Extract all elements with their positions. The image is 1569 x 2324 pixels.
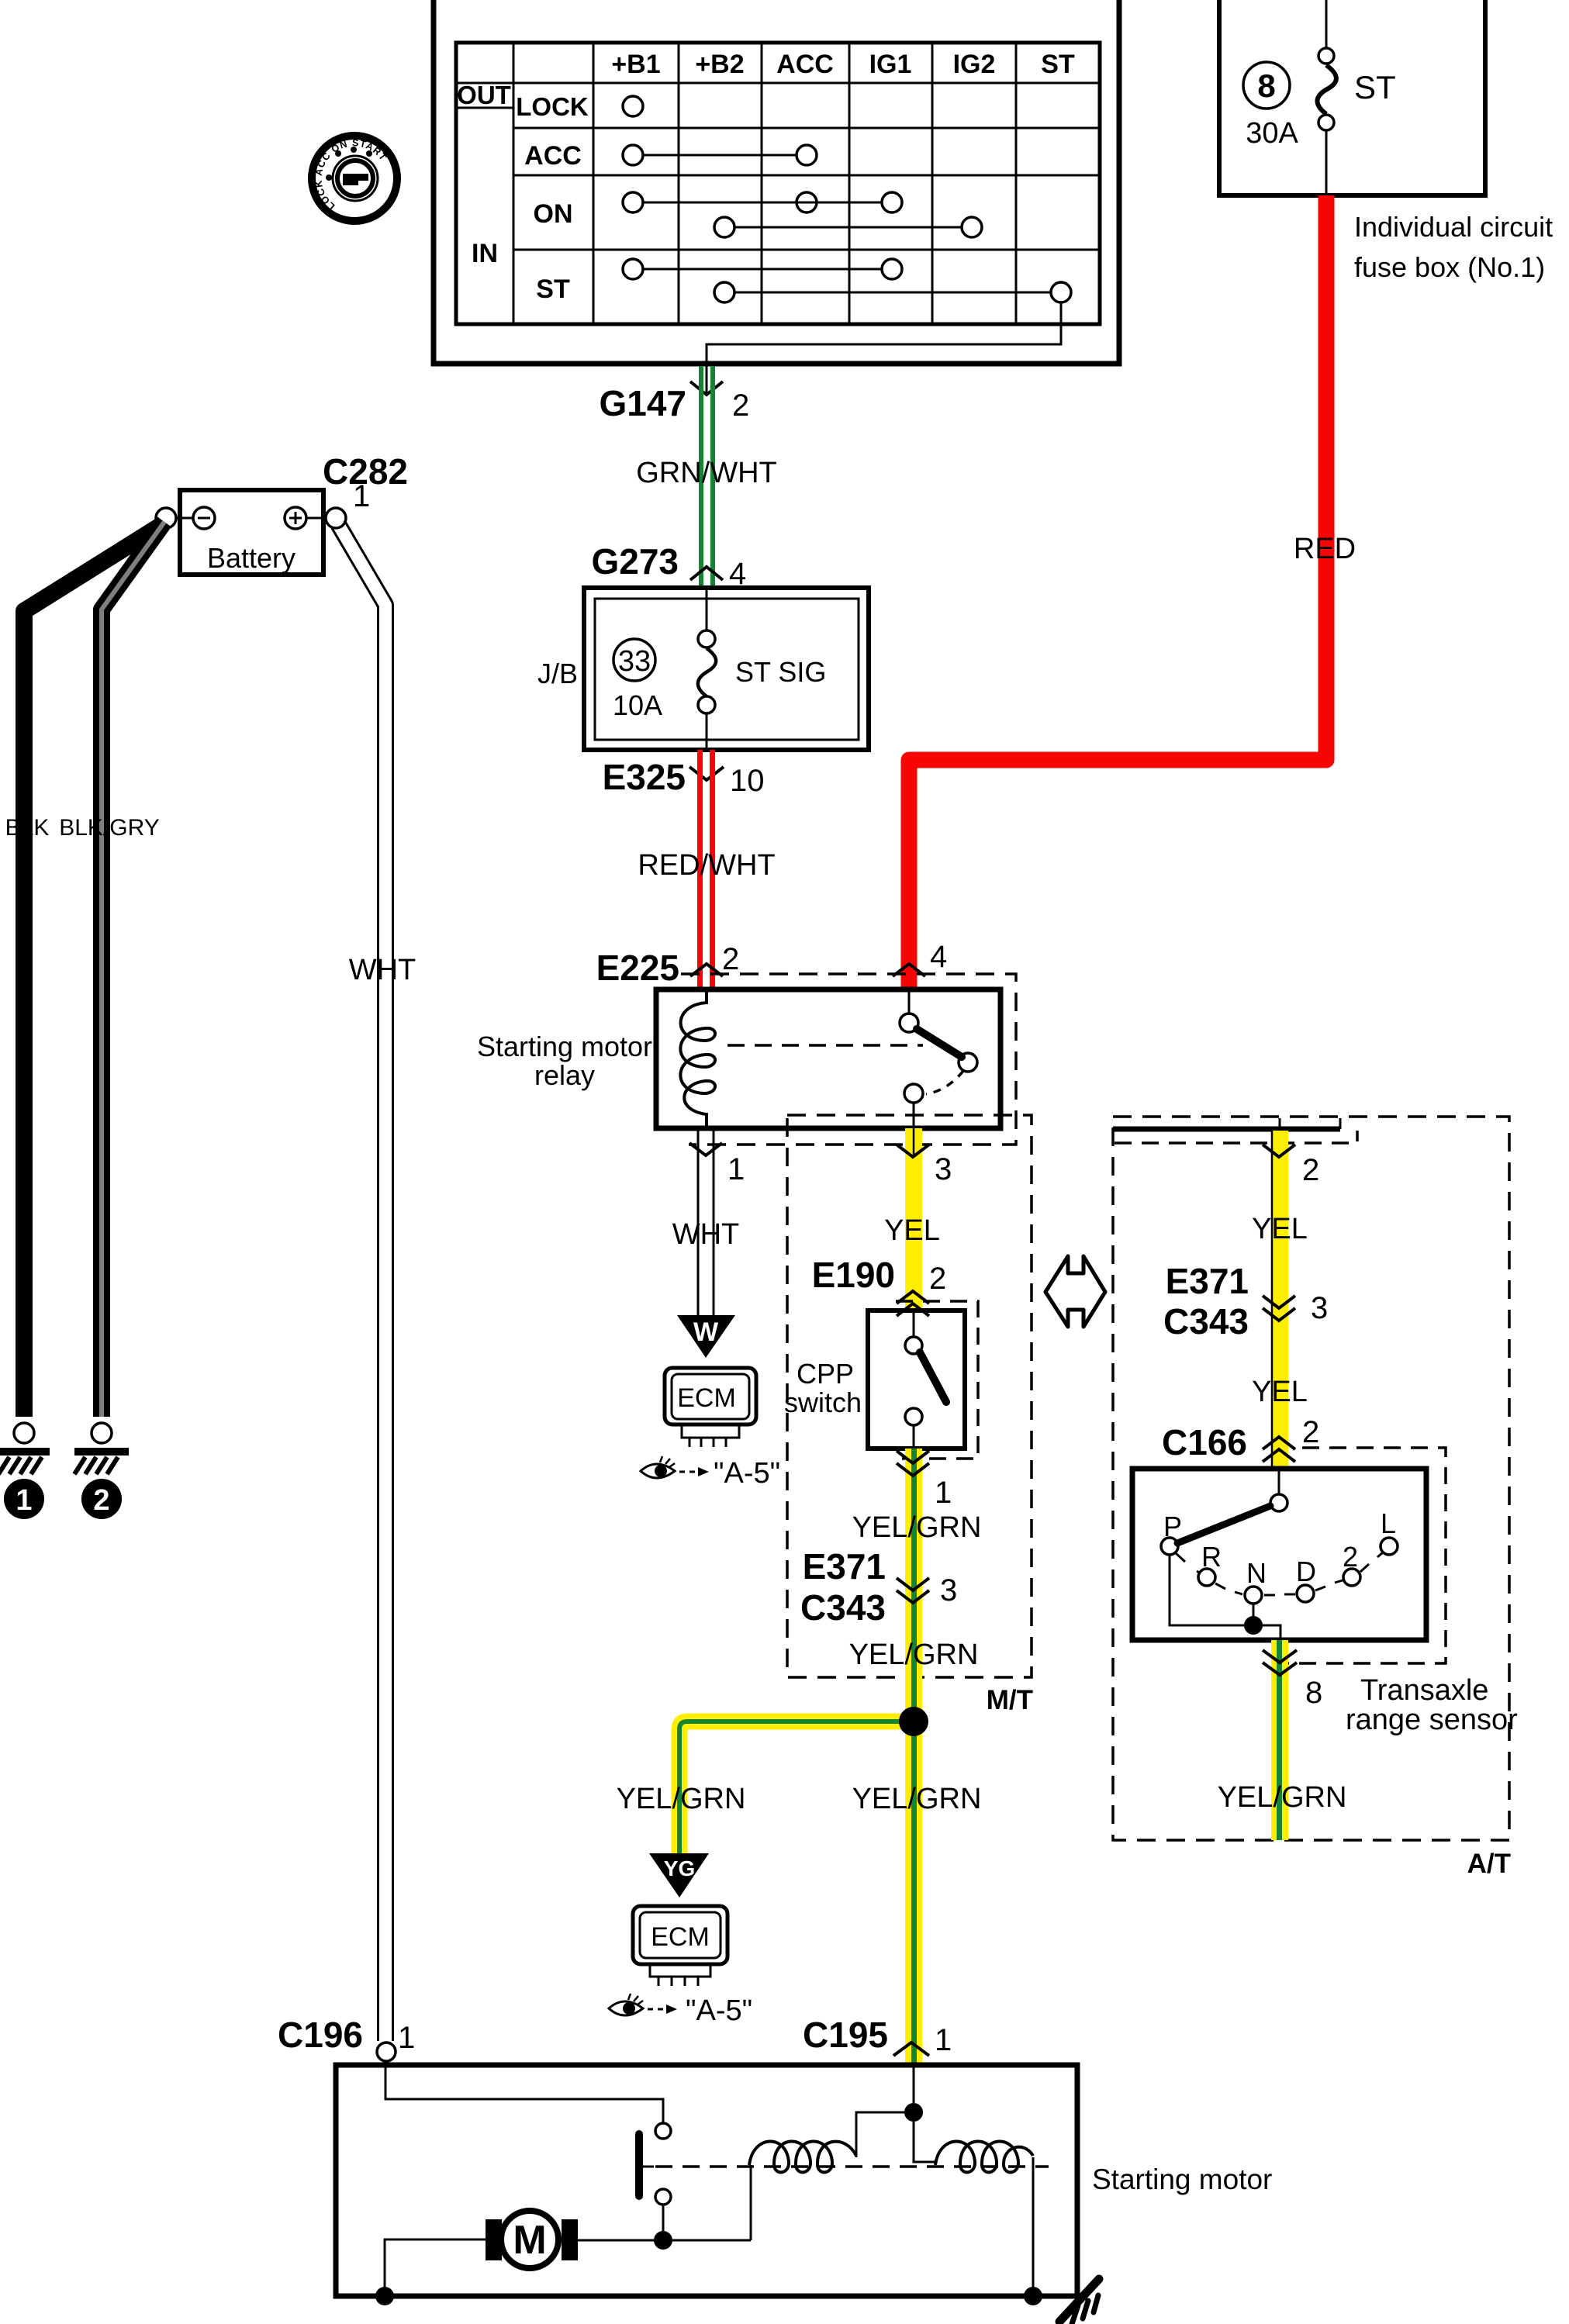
- svg-text:3: 3: [935, 1152, 952, 1186]
- wire winding to ground bus: [1032, 2157, 1035, 2291]
- svg-text:M: M: [513, 2218, 546, 2263]
- svg-text:YEL/GRN: YEL/GRN: [852, 1511, 982, 1544]
- svg-text:WHT: WHT: [349, 954, 416, 986]
- svg-text:range sensor: range sensor: [1346, 1704, 1518, 1736]
- plunger link: [641, 2166, 654, 2168]
- node battery right: [326, 508, 346, 528]
- ground 2: [74, 1423, 129, 1474]
- ground 1: [0, 1423, 50, 1474]
- node battery left: [156, 508, 176, 528]
- svg-text:ECM: ECM: [651, 1922, 710, 1952]
- connector C195: [803, 2015, 952, 2057]
- M/T dashed box: [787, 1115, 1032, 1677]
- table contact circles LOCK row: [623, 96, 643, 116]
- relay switch: [900, 989, 977, 1128]
- chassis ground: [1059, 2279, 1099, 2324]
- svg-text:2: 2: [93, 1484, 109, 1517]
- node bottom right: [1024, 2287, 1042, 2305]
- svg-text:2: 2: [1343, 1541, 1358, 1573]
- svg-text:2: 2: [929, 1262, 946, 1296]
- svg-text:Battery: Battery: [207, 542, 295, 574]
- wire YEL/GRN below CPP: [905, 1449, 922, 1721]
- connector G147: [599, 382, 749, 423]
- label Transaxle range sensor: [1346, 1674, 1518, 1736]
- node hold-in: [904, 2103, 923, 2122]
- fuse ST SIG 10A: [698, 588, 716, 750]
- label Individual circuit fuse box (No.1): [1354, 211, 1553, 283]
- wire node down: [914, 2122, 937, 2162]
- svg-text:YEL/GRN: YEL/GRN: [852, 1783, 982, 1815]
- contact arc ticks: [1176, 1552, 1383, 1595]
- connector C196: [278, 2015, 415, 2061]
- CPP switch dashed connector outline: [894, 1301, 978, 1459]
- svg-text:C196: C196: [278, 2015, 363, 2055]
- svg-text:ST: ST: [1354, 69, 1396, 105]
- transaxle range sensor box: [1132, 1469, 1426, 1640]
- svg-text:A/T: A/T: [1467, 1849, 1511, 1879]
- wire YEL relay pin 3: [905, 1128, 922, 1310]
- svg-text:IG1: IG1: [869, 50, 912, 79]
- svg-text:YEL/GRN: YEL/GRN: [849, 1639, 979, 1671]
- svg-text:"A-5": "A-5": [714, 1457, 780, 1490]
- arrow YG to ECM: [649, 1853, 709, 1898]
- connector E190: [812, 1255, 947, 1316]
- relay coil: [680, 989, 715, 1128]
- svg-text:OUT: OUT: [457, 81, 511, 109]
- svg-text:ST: ST: [536, 275, 570, 304]
- svg-text:YEL: YEL: [1252, 1376, 1308, 1408]
- ground 1 number: [4, 1479, 44, 1519]
- ECM box 2: [633, 1906, 727, 1986]
- svg-text:Transaxle: Transaxle: [1360, 1674, 1488, 1707]
- connector C166: [1162, 1415, 1319, 1462]
- connector G273: [591, 541, 746, 591]
- svg-text:Starting motor: Starting motor: [477, 1031, 652, 1062]
- svg-text:ACC: ACC: [776, 50, 834, 79]
- wire YEL/GRN A/T: [1271, 1640, 1288, 1840]
- svg-text:C166: C166: [1162, 1422, 1247, 1462]
- connector E371 C343 M/T: [800, 1546, 957, 1628]
- wire inside from C196 to solenoid contact: [385, 2061, 663, 2123]
- svg-text:BLK/GRY: BLK/GRY: [59, 815, 160, 841]
- wire YEL/GRN branch to ECM: [679, 1721, 914, 1853]
- A/T pin 2 chevron: [1263, 1145, 1319, 1187]
- relay pin 3 chevron: [897, 1145, 952, 1186]
- svg-text:switch: switch: [784, 1386, 862, 1418]
- sensor armature: [1177, 1506, 1270, 1543]
- fuse box No.1: [1219, 0, 1485, 195]
- fuse number 8: [1243, 62, 1290, 109]
- wire WHT relay pin 1: [698, 1128, 714, 1316]
- svg-text:+B1: +B1: [611, 50, 660, 79]
- svg-text:3: 3: [940, 1573, 957, 1607]
- svg-text:Individual circuit: Individual circuit: [1354, 211, 1553, 243]
- svg-text:WHT: WHT: [672, 1218, 740, 1251]
- svg-text:8: 8: [1305, 1676, 1322, 1710]
- svg-text:N: N: [1246, 1557, 1267, 1589]
- ignition switch contact table: [456, 43, 1100, 324]
- wire ST output inside switch box: [707, 302, 1061, 364]
- ECM box 1: [665, 1368, 756, 1447]
- svg-text:4: 4: [930, 940, 947, 974]
- svg-text:BLK: BLK: [5, 815, 50, 841]
- CPP switch contacts: [905, 1310, 946, 1449]
- contact D: [1296, 1556, 1316, 1602]
- svg-text:1: 1: [353, 479, 370, 513]
- sensor pin 8 chevrons: [1263, 1650, 1322, 1710]
- wire GRN/WHT: [699, 366, 715, 588]
- svg-text:ST: ST: [1041, 50, 1075, 79]
- svg-text:D: D: [1296, 1556, 1316, 1587]
- coil pull-in winding: [749, 2141, 856, 2172]
- A/T wire stub: [1279, 1118, 1281, 1129]
- svg-text:2: 2: [722, 942, 739, 976]
- sensor node: [1244, 1616, 1263, 1635]
- svg-text:GRN/WHT: GRN/WHT: [636, 457, 777, 489]
- svg-text:R: R: [1201, 1541, 1222, 1573]
- pull-in winding riser: [750, 2165, 752, 2240]
- svg-text:G273: G273: [591, 541, 679, 582]
- svg-text:8: 8: [1257, 67, 1275, 104]
- contact P: [1161, 1511, 1182, 1555]
- battery terminal links: [176, 517, 326, 520]
- sensor node wiring: [1170, 1555, 1280, 1640]
- svg-text:10: 10: [730, 764, 765, 798]
- svg-text:YEL/GRN: YEL/GRN: [617, 1783, 746, 1815]
- wire YEL A/T: [1271, 1131, 1288, 1469]
- svg-text:ECM: ECM: [677, 1383, 736, 1413]
- svg-text:1: 1: [398, 2021, 415, 2055]
- starting motor relay box: [656, 989, 1000, 1128]
- wire coil to node: [856, 2112, 904, 2157]
- connector E371 C343 A/T: [1163, 1261, 1328, 1342]
- svg-text:E371: E371: [803, 1546, 886, 1587]
- svg-text:fuse box (No.1): fuse box (No.1): [1354, 251, 1545, 283]
- A/T relay edge line: [1113, 1127, 1340, 1132]
- contact 2: [1343, 1541, 1360, 1586]
- svg-text:"A-5": "A-5": [686, 1994, 752, 2027]
- wire stub to G147: [706, 364, 708, 394]
- svg-text:+B2: +B2: [695, 50, 744, 79]
- svg-text:YEL: YEL: [884, 1214, 940, 1247]
- connector E325: [603, 757, 765, 798]
- contact N: [1245, 1557, 1267, 1604]
- svg-text:J/B: J/B: [537, 658, 578, 689]
- fuse number 33: [613, 639, 655, 681]
- svg-text:3: 3: [1311, 1291, 1328, 1325]
- svg-text:E190: E190: [812, 1255, 895, 1295]
- svg-text:ACC: ACC: [524, 141, 582, 171]
- svg-text:1: 1: [727, 1152, 745, 1186]
- battery box: [180, 490, 323, 575]
- CPP switch box: [868, 1310, 965, 1449]
- A/T connector dashed edge: [1115, 1131, 1357, 1143]
- connector E225 dashed outline: [681, 974, 1016, 1145]
- battery minus terminal: [193, 507, 215, 529]
- svg-text:LOCK: LOCK: [516, 92, 589, 121]
- table contacts ST row: [623, 259, 1071, 302]
- svg-text:P: P: [1163, 1511, 1182, 1542]
- contact R: [1198, 1541, 1222, 1586]
- M/T A/T equivalence arrow: [1045, 1256, 1105, 1327]
- wire C195 into box: [913, 2065, 915, 2103]
- svg-text:33: 33: [618, 645, 651, 678]
- svg-text:E371: E371: [1166, 1261, 1249, 1301]
- label Starting motor relay: [477, 1031, 652, 1091]
- svg-text:ST SIG: ST SIG: [735, 656, 826, 688]
- starting motor box: [336, 2065, 1077, 2296]
- node solenoid output: [654, 2231, 672, 2250]
- svg-text:YEL: YEL: [1252, 1213, 1308, 1245]
- svg-text:W: W: [693, 1317, 719, 1347]
- eye icon 2: [609, 1994, 677, 2015]
- sensor N output: [1253, 1604, 1255, 1617]
- svg-text:2: 2: [732, 388, 749, 423]
- svg-text:C343: C343: [800, 1587, 886, 1628]
- svg-text:Starting motor: Starting motor: [1092, 2163, 1272, 2195]
- A/T dashed box: [1113, 1117, 1509, 1840]
- wire BLK/GRY: [102, 522, 164, 1417]
- solenoid plunger bar: [635, 2134, 643, 2196]
- svg-text:2: 2: [1302, 1153, 1319, 1187]
- ignition key symbol: [312, 136, 397, 221]
- wire RED from fuse box to relay pin 4: [909, 195, 1326, 989]
- relay pin 1 chevron: [689, 1143, 745, 1186]
- eye icon 1: [641, 1456, 709, 1478]
- relay actuation dashed link: [727, 1044, 923, 1047]
- wire RED/WHT: [697, 750, 715, 989]
- connector C282: [323, 451, 408, 513]
- svg-text:IG2: IG2: [953, 50, 996, 79]
- motor supply wire: [578, 2239, 751, 2242]
- svg-text:ON: ON: [534, 199, 573, 229]
- label CPP switch: [784, 1358, 862, 1418]
- CPP pin 1 chevrons: [897, 1451, 952, 1510]
- svg-text:CPP: CPP: [797, 1358, 854, 1390]
- ignition switch box: [434, 0, 1119, 364]
- svg-text:1: 1: [935, 1476, 952, 1510]
- table contacts ACC row: [623, 145, 817, 165]
- wire WHT from battery: [338, 524, 385, 2041]
- svg-text:IN: IN: [472, 239, 498, 268]
- wire motor to ground side: [385, 2239, 486, 2291]
- svg-text:1: 1: [16, 1484, 32, 1517]
- svg-text:30A: 30A: [1246, 117, 1298, 150]
- arrow W to ECM: [677, 1315, 735, 1358]
- svg-text:1: 1: [935, 2023, 952, 2057]
- svg-text:E325: E325: [603, 757, 686, 797]
- svg-text:L: L: [1381, 1507, 1396, 1539]
- svg-text:C343: C343: [1163, 1301, 1249, 1342]
- motor M: [486, 2211, 578, 2268]
- sensor common contact: [1270, 1469, 1287, 1511]
- junction node: [899, 1707, 928, 1736]
- svg-text:M/T: M/T: [987, 1685, 1033, 1715]
- node bottom left: [375, 2287, 394, 2305]
- ground 2 number: [81, 1479, 122, 1519]
- solenoid contact upper: [655, 2123, 671, 2139]
- wire BLK: [24, 524, 163, 1417]
- svg-text:G147: G147: [599, 383, 686, 423]
- wire YEL/GRN main vertical to C195: [905, 1721, 922, 2065]
- svg-text:E225: E225: [596, 948, 679, 988]
- svg-text:RED/WHT: RED/WHT: [638, 849, 775, 882]
- coil hold-in winding: [935, 2141, 1033, 2172]
- battery plus terminal: [285, 507, 306, 529]
- fuse ST 30A: [1317, 0, 1336, 195]
- contact L: [1381, 1507, 1398, 1555]
- svg-text:RED: RED: [1294, 533, 1356, 565]
- svg-text:2: 2: [1302, 1415, 1319, 1449]
- svg-text:10A: 10A: [613, 689, 662, 721]
- junction block J/B: [584, 588, 869, 750]
- svg-text:YEL/GRN: YEL/GRN: [1218, 1781, 1347, 1814]
- solenoid contact lower: [655, 2189, 671, 2205]
- svg-text:YG: YG: [664, 1856, 695, 1880]
- actuation dashed line: [655, 2165, 1049, 2168]
- svg-text:C195: C195: [803, 2015, 888, 2055]
- C166 dashed connector outline: [1286, 1448, 1446, 1663]
- table contacts ON row: [623, 192, 982, 237]
- wire lower contact to node: [662, 2205, 665, 2231]
- connector E225: [596, 940, 948, 988]
- svg-text:relay: relay: [534, 1059, 595, 1091]
